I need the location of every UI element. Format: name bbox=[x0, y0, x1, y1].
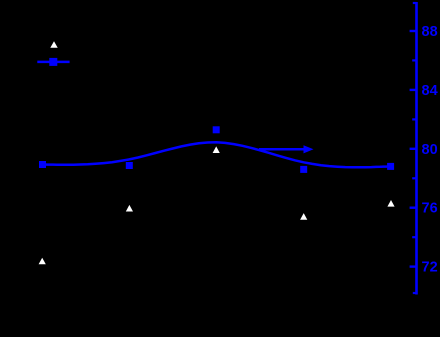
triangle marker T1 bbox=[39, 258, 46, 265]
right y-axis line (blue) bbox=[415, 2, 418, 295]
legend line (blue) bbox=[37, 61, 69, 64]
triangle marker T3 bbox=[213, 146, 220, 153]
svg-text:series B: series B bbox=[73, 54, 120, 69]
square marker S5 bbox=[387, 163, 394, 170]
svg-text:72: 72 bbox=[422, 260, 438, 276]
triangle marker T4 bbox=[300, 213, 307, 220]
right axis minor tick 86 bbox=[412, 59, 416, 61]
right axis major tick 80 bbox=[410, 148, 417, 150]
right axis minor tick 82 bbox=[412, 118, 416, 120]
blue B-spline curve (right-axis series) bbox=[43, 142, 391, 167]
x-axis (black, invisible on black) bbox=[36, 292, 417, 295]
svg-text:series A: series A bbox=[75, 37, 122, 52]
square marker S2 bbox=[126, 162, 133, 169]
right axis minor tick 90 bbox=[413, 2, 417, 4]
left y-axis (black, invisible on black) bbox=[35, 2, 38, 294]
arrowhead bbox=[304, 145, 314, 153]
right axis major tick 84 bbox=[410, 89, 417, 91]
svg-text:76: 76 bbox=[422, 201, 438, 217]
triangle marker T5 bbox=[387, 200, 394, 207]
arrow to right axis (blue) bbox=[259, 148, 305, 151]
svg-text:legend title: legend title bbox=[75, 18, 138, 33]
right axis major tick 76 bbox=[410, 206, 417, 208]
svg-text:84: 84 bbox=[422, 83, 438, 99]
triangle marker T2 bbox=[126, 205, 133, 212]
legend triangle marker bbox=[50, 41, 57, 48]
right axis major tick 72 bbox=[410, 265, 417, 267]
square marker S3 bbox=[213, 126, 220, 133]
svg-text:80: 80 bbox=[422, 142, 438, 158]
right axis major tick 88 bbox=[410, 30, 417, 32]
square marker S1 bbox=[39, 161, 46, 168]
square marker S4 bbox=[300, 166, 307, 173]
right axis minor tick 78 bbox=[412, 177, 416, 179]
right axis minor tick 74 bbox=[412, 236, 416, 238]
svg-text:88: 88 bbox=[422, 24, 438, 40]
legend square marker bbox=[49, 58, 57, 66]
right axis minor tick 70 bbox=[413, 292, 417, 294]
